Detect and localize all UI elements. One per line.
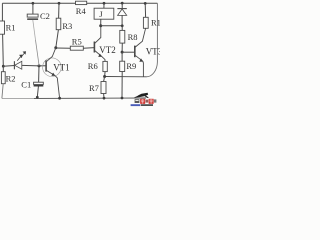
svg-text:R2: R2 (6, 73, 16, 83)
diode VD2 (117, 8, 126, 10)
wire VT3 emitter down (142, 61, 145, 77)
relay J (94, 8, 114, 19)
wire R7 top (104, 77, 105, 82)
svg-text:J: J (99, 9, 103, 19)
wire emitter bus (105, 76, 147, 78)
wire left rail to R2 (2, 66, 4, 72)
wire diode bottom (121, 15, 123, 25)
wire VT2 emitter to R6 (102, 56, 105, 61)
wire top rail right segment (87, 2, 158, 4)
wire R3 top (58, 3, 60, 18)
node diode R8 junction (121, 24, 124, 27)
wire VT1 emitter down (55, 76, 60, 99)
wire diode top (121, 3, 123, 9)
svg-text:VT3: VT3 (146, 47, 160, 57)
photodiode light arrow 2 (17, 57, 21, 61)
wire R3 bottom (56, 30, 59, 48)
svg-text:R5: R5 (72, 36, 82, 46)
svg-text:C2: C2 (40, 11, 50, 21)
node A collector junction (54, 46, 57, 49)
svg-text:R6: R6 (88, 61, 98, 71)
transistor VT3 (134, 46, 136, 58)
resistor R2 (1, 72, 5, 84)
wire base bus (22, 64, 46, 67)
wire node A to R5 (56, 47, 71, 49)
transistor VT2 (93, 42, 95, 53)
svg-text:R4: R4 (76, 6, 87, 16)
wire collector bus (101, 25, 123, 27)
photodiode light arrow 1 (21, 53, 25, 57)
node VT3 base junction (121, 51, 124, 54)
capacitor C2 (27, 14, 38, 17)
wire left rail middle (2, 34, 5, 66)
wire R8 bottom (121, 43, 123, 52)
photodiode VD1 wire left (3, 65, 14, 68)
node top R3 junction (58, 2, 61, 5)
wire R8 top (121, 26, 123, 31)
svg-text:VT2: VT2 (99, 45, 116, 55)
watermark logo (131, 93, 157, 106)
node C1 bottom junction (36, 96, 39, 99)
node C1 junction (38, 64, 41, 67)
wire left rail lower (2, 84, 3, 99)
node VT1 emitter ground junction (58, 97, 61, 100)
photodiode VD1 (13, 61, 15, 69)
wire C2 bottom (33, 20, 36, 40)
wire R9 top (121, 52, 123, 61)
capacitor C1 (34, 82, 44, 84)
resistor R5 (70, 46, 83, 50)
wire relay bottom pin (100, 19, 102, 26)
wire relay top pin (103, 3, 105, 8)
svg-text:R3: R3 (62, 21, 72, 31)
wire right rail (147, 3, 158, 77)
transistor VT1 (43, 58, 62, 77)
wire C1 top (38, 66, 40, 82)
node left-base junction (2, 65, 5, 68)
wire R5 to VT2 base (83, 47, 94, 50)
resistor R3 (56, 18, 61, 30)
svg-text:R10: R10 (151, 18, 160, 28)
node relay top junction (103, 2, 106, 5)
svg-text:R1: R1 (6, 23, 16, 33)
svg-text:R9: R9 (126, 61, 136, 71)
svg-text:R7: R7 (89, 83, 99, 93)
wire top rail left segment (2, 2, 75, 4)
resistor R8 (120, 30, 125, 43)
node R7 ground junction (103, 97, 106, 100)
wire R6 bottom (104, 72, 107, 77)
node diode top junction (121, 2, 124, 5)
wire C2 top (32, 3, 34, 14)
wire R7 bottom (103, 94, 105, 99)
wire R9 bottom (121, 72, 123, 99)
resistor R1 (0, 21, 5, 34)
wire bottom rail (2, 97, 34, 99)
svg-text:VT1: VT1 (53, 62, 69, 72)
wire R10 top (144, 3, 146, 17)
svg-text:R8: R8 (128, 32, 138, 42)
node C2 top junction (32, 2, 35, 5)
node VT2 collector junction (99, 24, 102, 27)
resistor R9 (120, 61, 125, 71)
node R9 ground junction (121, 97, 124, 100)
wire C1 bottom (37, 87, 38, 98)
wire left rail upper (1, 3, 3, 21)
node emitter bus junction (103, 75, 106, 78)
resistor R10 (143, 17, 148, 28)
node R10 top junction (144, 2, 147, 5)
wire base to VT3 (122, 51, 135, 53)
svg-text:C1: C1 (21, 80, 31, 90)
resistor R7 (101, 82, 106, 94)
resistor R6 (103, 61, 107, 71)
resistor R4 (76, 1, 87, 4)
